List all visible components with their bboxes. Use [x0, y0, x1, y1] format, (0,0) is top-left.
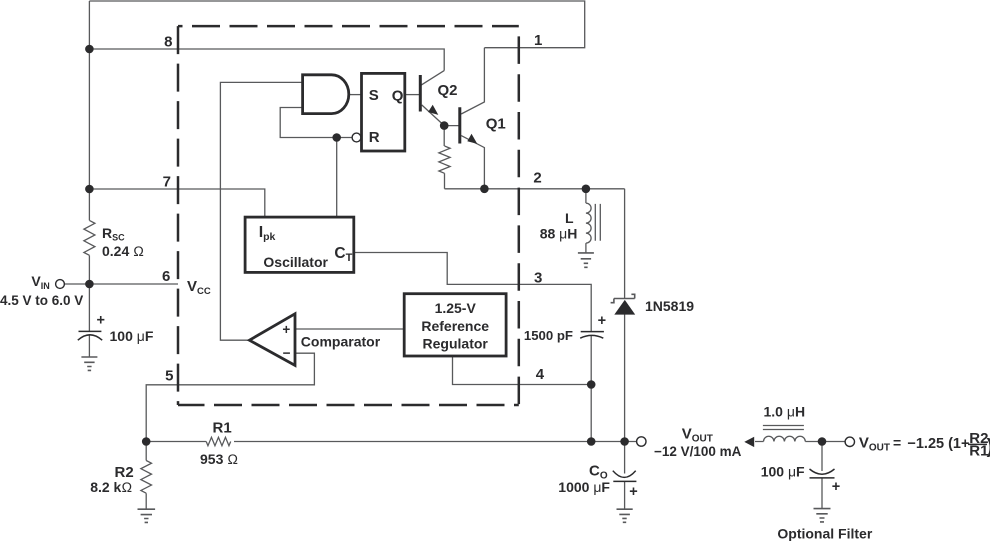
svg-text:953 Ω: 953 Ω — [200, 451, 238, 467]
svg-text:+: + — [629, 484, 637, 500]
svg-text:−1.25 (1+: −1.25 (1+ — [907, 436, 969, 452]
svg-text:+: + — [96, 313, 104, 329]
svg-text:Q: Q — [392, 88, 404, 105]
svg-text:CT: CT — [334, 245, 352, 264]
svg-text:1000 μF: 1000 μF — [558, 479, 610, 495]
svg-text:1N5819: 1N5819 — [645, 298, 694, 314]
svg-text:Q2: Q2 — [438, 82, 458, 99]
svg-text:88 μH: 88 μH — [540, 226, 578, 242]
svg-text:100 μF: 100 μF — [110, 328, 154, 344]
svg-text:7: 7 — [163, 173, 171, 190]
svg-text:6: 6 — [162, 268, 170, 285]
svg-text:Ipk: Ipk — [259, 224, 276, 243]
svg-text:−: − — [283, 346, 291, 361]
svg-text:RSC: RSC — [102, 225, 125, 243]
svg-text:4.5 V to 6.0 V: 4.5 V to 6.0 V — [0, 293, 83, 308]
svg-text:L: L — [565, 210, 574, 226]
svg-text:2: 2 — [533, 169, 541, 186]
svg-text:4: 4 — [536, 366, 545, 383]
svg-text:8: 8 — [164, 34, 172, 51]
svg-text:Q1: Q1 — [486, 116, 506, 133]
svg-text:8.2 kΩ: 8.2 kΩ — [90, 479, 132, 495]
svg-text:+: + — [598, 313, 606, 329]
svg-text:Comparator: Comparator — [301, 333, 381, 349]
svg-text:1.25-V: 1.25-V — [435, 300, 477, 316]
svg-text:5: 5 — [165, 367, 173, 384]
svg-text:1: 1 — [534, 32, 542, 49]
svg-text:Oscillator: Oscillator — [263, 254, 328, 270]
svg-text:3: 3 — [534, 270, 542, 287]
svg-text:−12 V/100 mA: −12 V/100 mA — [654, 444, 742, 459]
svg-text:R1: R1 — [213, 419, 232, 436]
svg-text:1500 pF: 1500 pF — [524, 328, 573, 343]
svg-text:VOUT: VOUT — [682, 426, 713, 445]
svg-text:): ) — [987, 436, 990, 458]
svg-text:VIN: VIN — [31, 273, 49, 291]
svg-text:VCC: VCC — [187, 278, 211, 297]
svg-text:+: + — [832, 479, 840, 495]
svg-text:+: + — [282, 322, 290, 337]
svg-text:100 μF: 100 μF — [761, 463, 805, 479]
svg-text:R: R — [369, 129, 380, 146]
svg-text:1.0 μH: 1.0 μH — [764, 403, 806, 419]
svg-text:S: S — [369, 87, 379, 104]
svg-text:Optional Filter: Optional Filter — [777, 526, 872, 541]
svg-text:=: = — [893, 435, 901, 451]
svg-text:Regulator: Regulator — [423, 336, 489, 352]
svg-text:VOUT: VOUT — [859, 435, 890, 454]
svg-text:0.24 Ω: 0.24 Ω — [102, 243, 144, 259]
svg-text:Reference: Reference — [421, 318, 489, 334]
